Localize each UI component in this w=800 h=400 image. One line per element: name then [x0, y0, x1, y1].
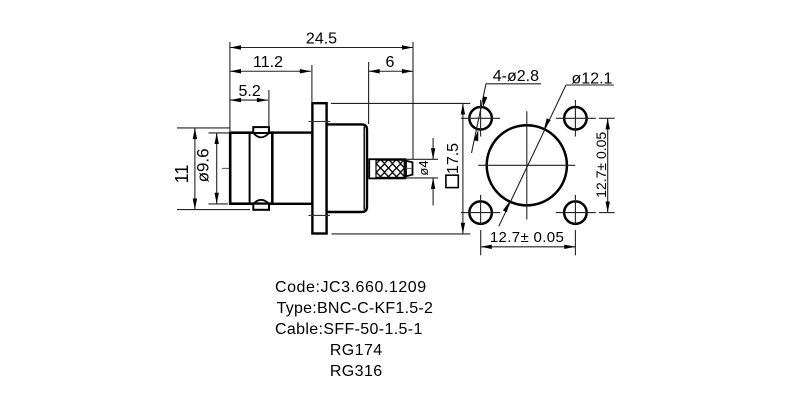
5.2 arrows	[230, 98, 241, 102]
bayonet lug top	[253, 127, 269, 133]
crimp ferrule outline	[369, 159, 405, 178]
phi4 dim tails	[432, 138, 434, 159]
phi4 arrows outside	[431, 148, 435, 159]
svg-text:ø4: ø4	[416, 160, 431, 175]
svg-text:4-ø2.8: 4-ø2.8	[493, 68, 539, 85]
big circle crosshair	[478, 164, 575, 166]
dim line 9.6	[216, 133, 218, 204]
24.5 arrows	[230, 45, 241, 49]
svg-text:11: 11	[172, 165, 192, 184]
rear body face inner line	[363, 127, 365, 210]
big circle 12.1	[487, 125, 567, 205]
ext line right main	[412, 42, 414, 159]
dim line 6	[369, 70, 413, 72]
svg-text:ø9.6: ø9.6	[193, 148, 212, 182]
flange sq ext top	[331, 102, 470, 104]
svg-text:RG316: RG316	[330, 363, 383, 380]
11 ext bottom	[177, 209, 250, 211]
hole bottom-left	[469, 201, 492, 224]
hole top-right	[564, 107, 587, 130]
svg-text:Cable:SFF-50-1.5-1: Cable:SFF-50-1.5-1	[275, 321, 423, 338]
coupling nut body	[230, 133, 272, 204]
svg-text:Type:BNC-C-KF1.5-2: Type:BNC-C-KF1.5-2	[277, 300, 434, 317]
svg-text:12.7± 0.05: 12.7± 0.05	[593, 132, 609, 198]
leader 4-phi2.8	[472, 84, 542, 153]
svg-text:5.2: 5.2	[238, 83, 260, 100]
svg-text:11.2: 11.2	[253, 54, 283, 71]
dimension thin lines	[177, 42, 470, 234]
svg-text:RG174: RG174	[330, 342, 383, 359]
leader phi12.1	[499, 85, 614, 226]
ext line 11.2 right	[311, 65, 313, 103]
flange hole line top	[309, 121, 331, 123]
ext line 5.2 right	[268, 90, 270, 126]
9.6 ext top	[208, 132, 229, 134]
dim line 11.2	[230, 70, 311, 72]
ext line 6 left	[368, 62, 370, 124]
hole top-left	[469, 107, 492, 130]
hole bottom-right	[564, 201, 587, 224]
lug slot arc bottom	[254, 200, 269, 204]
svg-text:12.7± 0.05: 12.7± 0.05	[490, 229, 564, 246]
right 12.7 dim	[599, 118, 615, 212]
lug slot arc top	[254, 133, 269, 137]
17.5 square symbol	[446, 175, 458, 187]
arrows left view	[193, 45, 465, 234]
6 arrows	[369, 69, 380, 73]
phi4 ext top	[406, 158, 439, 160]
svg-text:ø12.1: ø12.1	[572, 71, 613, 88]
svg-text:24.5: 24.5	[306, 31, 337, 48]
ext line left main	[229, 42, 231, 131]
11 ext top	[177, 127, 230, 129]
rear body cylinder	[327, 124, 367, 212]
9.6 arrows	[215, 133, 219, 144]
barrel between nut and flange	[272, 133, 312, 204]
phi4 ext bottom	[406, 177, 439, 179]
nut inner ring line	[249, 133, 251, 204]
11 arrows	[193, 128, 197, 139]
svg-text:17.5: 17.5	[445, 143, 462, 174]
svg-text:Code:JC3.660.1209: Code:JC3.660.1209	[275, 279, 427, 296]
knurl hatch	[376, 160, 404, 177]
flange plate side view	[312, 103, 326, 233]
centerline through tip	[406, 167, 412, 169]
dim line 17.5	[462, 103, 464, 234]
17.5 arrows	[461, 103, 465, 114]
centerline left view	[222, 167, 409, 169]
11.2 arrows	[230, 69, 241, 73]
bottom 12.7 dim	[481, 230, 576, 255]
dim line 5.2	[230, 99, 268, 101]
flange sq ext bottom	[332, 233, 471, 235]
svg-text:6: 6	[386, 54, 395, 71]
dim line 11	[194, 128, 196, 210]
dim line 24.5	[230, 47, 413, 49]
9.6 ext bottom	[208, 203, 228, 205]
bayonet lug bottom	[253, 204, 269, 210]
flange hole line bottom	[309, 214, 331, 216]
tip	[406, 161, 413, 176]
